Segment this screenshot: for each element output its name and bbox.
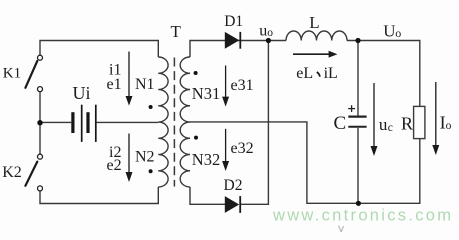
svg-text:e2: e2 (107, 157, 122, 174)
svg-text:e1: e1 (107, 76, 122, 93)
svg-text:N31: N31 (192, 84, 220, 103)
svg-text:N2: N2 (135, 148, 155, 165)
svg-text:o: o (395, 26, 401, 40)
svg-text:u: u (259, 22, 267, 39)
svg-text:U: U (383, 21, 395, 40)
svg-text:T: T (171, 22, 182, 41)
svg-text:D1: D1 (224, 13, 243, 30)
svg-text:o: o (267, 27, 273, 39)
svg-text:c: c (388, 122, 393, 134)
svg-text:N1: N1 (135, 76, 155, 93)
svg-text:K2: K2 (2, 164, 22, 181)
svg-text:Ui: Ui (73, 83, 91, 103)
svg-text:iL: iL (324, 65, 338, 82)
svg-text:N32: N32 (192, 150, 220, 169)
svg-text:R: R (401, 113, 413, 133)
svg-text:o: o (446, 120, 452, 132)
svg-text:u: u (379, 115, 388, 134)
svg-text:e31: e31 (231, 77, 254, 94)
svg-text:K1: K1 (3, 66, 21, 82)
svg-text:eL: eL (296, 65, 313, 82)
svg-text:e32: e32 (231, 140, 254, 157)
svg-text:D2: D2 (224, 177, 243, 194)
svg-text:C: C (334, 113, 347, 134)
svg-text:L: L (309, 13, 319, 32)
